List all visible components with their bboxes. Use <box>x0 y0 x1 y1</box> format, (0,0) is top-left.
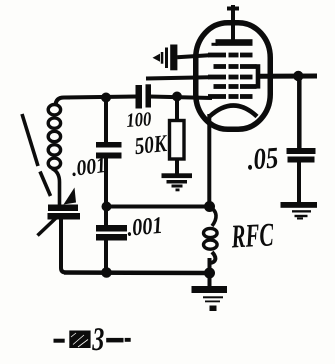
tube V1 grid row 3 <box>208 75 253 80</box>
coil L1 top corner hook <box>56 98 71 107</box>
node top-left junction <box>101 93 111 103</box>
caption dash 1 <box>54 339 65 343</box>
tube V1 plate bar <box>216 39 253 46</box>
label .05 <box>247 147 279 169</box>
node cathode-RFC junction <box>204 201 215 212</box>
caption dash 2 <box>106 338 123 343</box>
ground below RFC <box>192 286 228 311</box>
label 100 <box>126 112 151 127</box>
wire top rail right segment <box>150 97 213 99</box>
capacitor C1 bottom plate <box>48 213 81 220</box>
tube V1 grid row 1 <box>208 53 253 58</box>
capacitor C5 .05 top plate <box>287 148 316 154</box>
inductor RFC loops <box>204 228 218 237</box>
node mid-left junction <box>102 202 112 212</box>
node bottom RFC junction <box>204 268 215 279</box>
capacitor C2 .001 bottom plate <box>96 153 122 159</box>
inductor RFC top hook <box>210 207 217 226</box>
node B+ junction <box>293 71 303 81</box>
tube V1 screen bracket <box>256 64 261 88</box>
wire grid3 stub <box>146 77 209 78</box>
capacitor C3 .001 bottom plate <box>96 234 127 241</box>
capacitor C3 .001 top plate <box>96 225 127 232</box>
inductor RFC bottom hook <box>210 252 216 263</box>
wire grid cap to tube <box>177 55 209 57</box>
capacitor C2 .001 top plate <box>96 142 122 148</box>
resistor R1 50K lead top <box>175 97 179 122</box>
tube V1 grid row 2 <box>214 64 257 69</box>
tube V1 grid row 4 <box>214 84 257 89</box>
resistor R1 50K body <box>170 121 185 160</box>
arrow (tuning) long diagonal stroke 1 <box>22 114 38 166</box>
tube V1 envelope <box>196 23 271 130</box>
wire screen to B+ rail <box>259 74 317 79</box>
caption figure blob <box>69 331 90 349</box>
wire bottom rail <box>64 270 209 275</box>
wire B+ rail down <box>297 77 302 150</box>
node grid junction <box>172 92 182 102</box>
capacitor C4 100 left plate <box>136 85 143 109</box>
capacitor C1 variable arrowhead <box>64 188 77 205</box>
label .001 second <box>127 217 162 236</box>
wire middle rail center <box>104 158 108 226</box>
capacitor C1 top plate <box>48 205 78 212</box>
coil L1 loops <box>48 105 60 115</box>
node bottom middle junction <box>101 267 112 278</box>
ground below 50K <box>162 173 193 191</box>
label 50K <box>134 135 168 155</box>
label .001 first <box>71 158 105 177</box>
wire mid horizontal to RFC <box>106 205 209 209</box>
tube V1 grid row 5 <box>208 94 253 99</box>
wire middle rail lower <box>104 240 108 273</box>
wire .05 to ground <box>297 163 301 204</box>
wire middle rail upper <box>104 98 108 144</box>
wire coil bottom tail <box>52 169 60 206</box>
ground below .05 <box>281 202 318 220</box>
wire RFC to ground <box>208 258 212 287</box>
capacitor C1 variable arrow tail <box>38 218 57 236</box>
tube V1 plate lead tick <box>227 7 239 11</box>
grid cap connector symbol <box>153 45 178 71</box>
resistor R1 50K lead bottom <box>175 159 179 176</box>
caption numeral 3 <box>92 328 104 350</box>
capacitor C5 .05 bottom plate <box>288 157 315 163</box>
caption dash 3 <box>125 338 131 342</box>
arrow (tuning) long diagonal stroke 2 <box>40 172 51 197</box>
tube V1 plate lead <box>231 5 235 44</box>
wire top rail left segment <box>64 97 137 98</box>
wire cathode lead <box>207 114 211 206</box>
label RFC <box>231 223 274 247</box>
tube V1 cathode <box>210 106 258 117</box>
wire varcap to bottom rail <box>61 220 66 273</box>
capacitor C4 100 right plate <box>146 84 152 107</box>
